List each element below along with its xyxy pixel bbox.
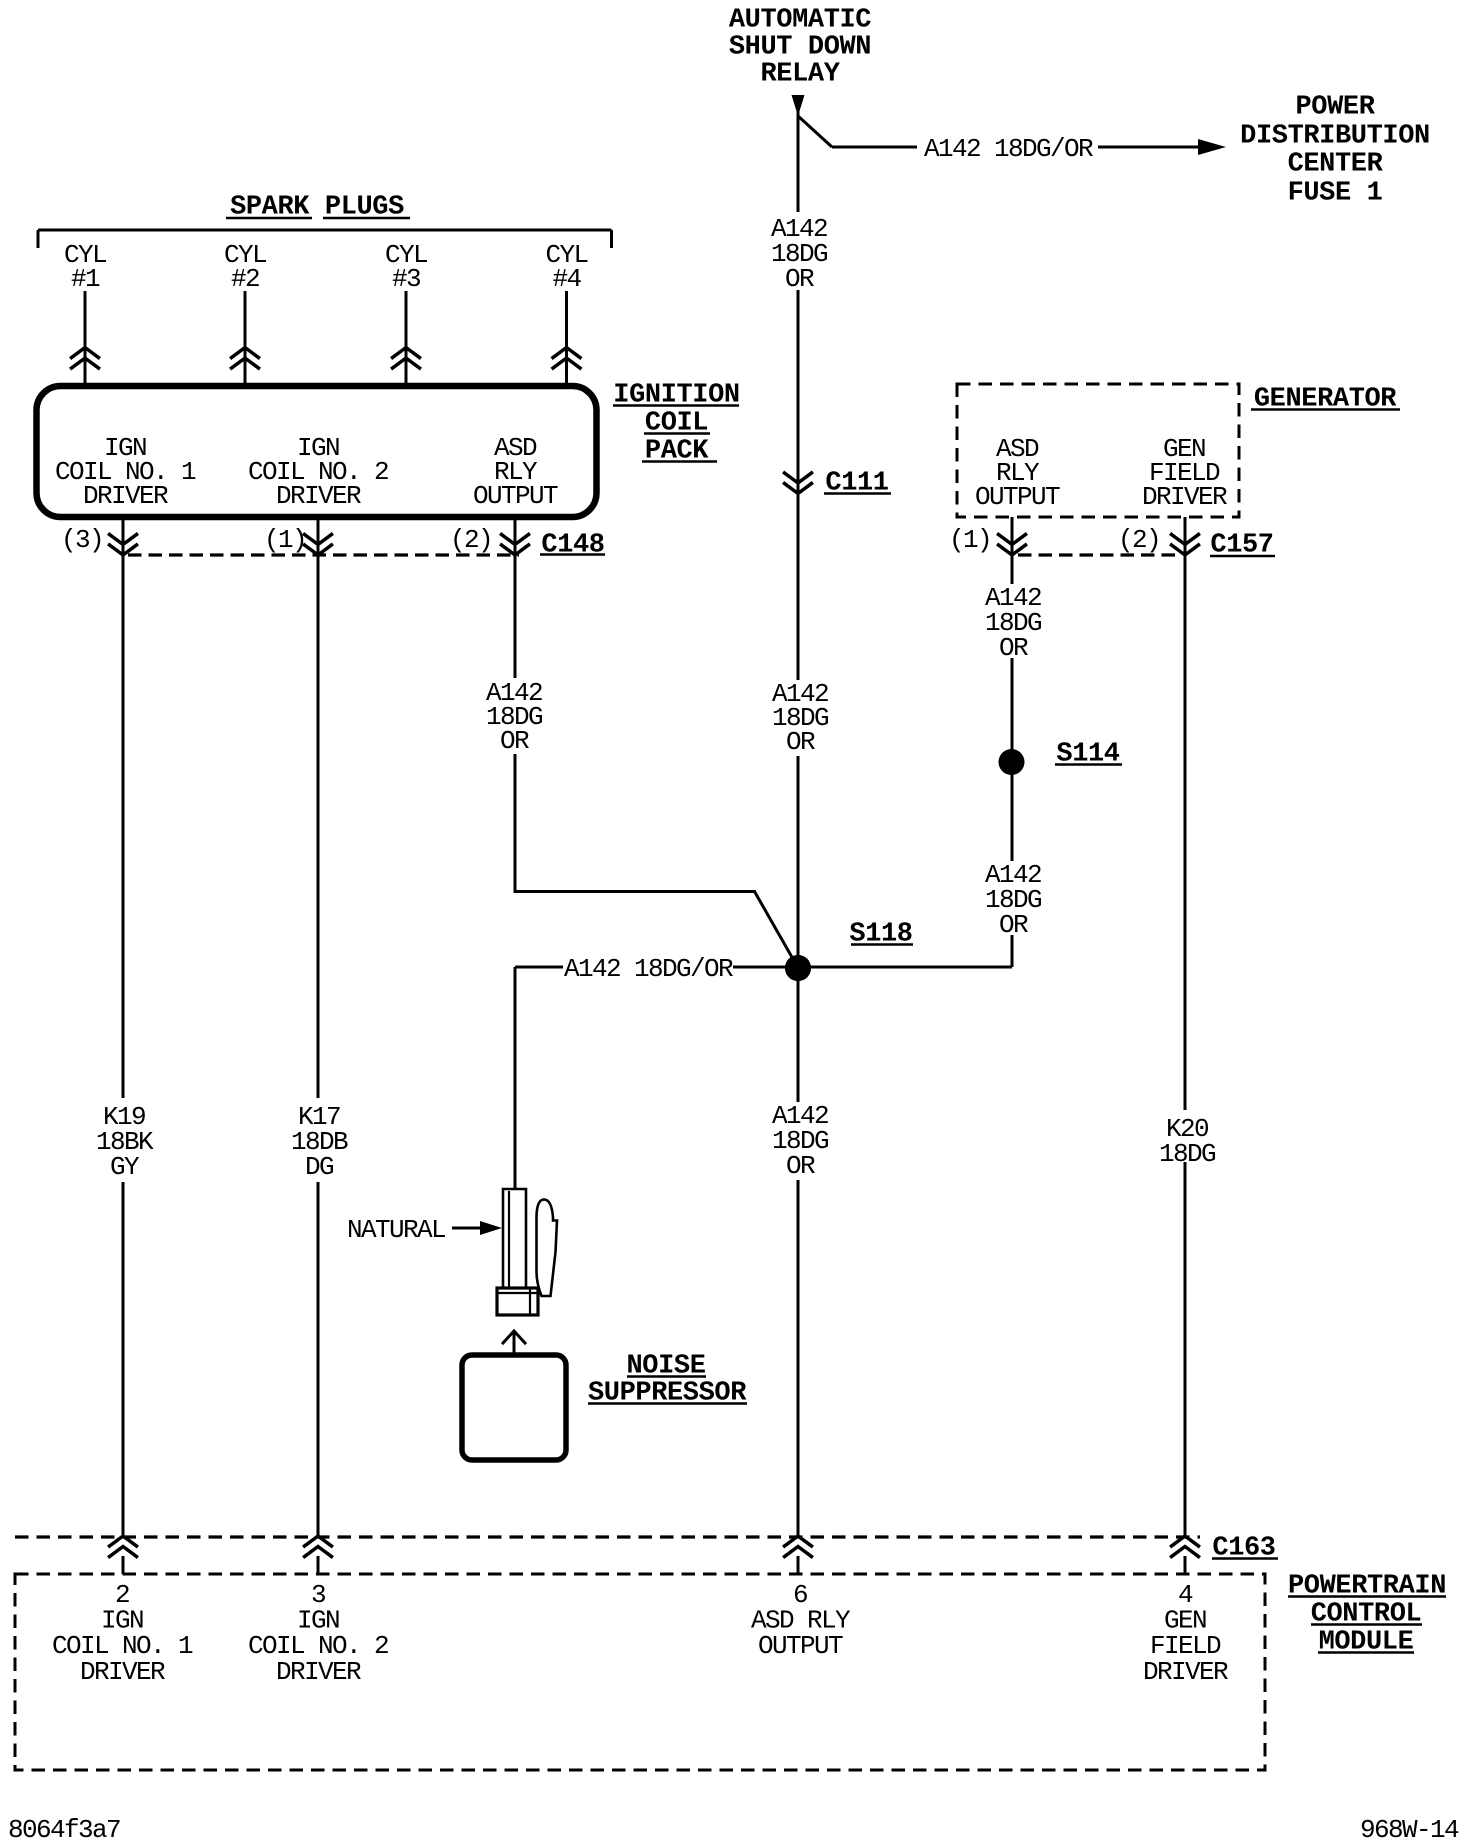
svg-text:(2): (2) (1118, 525, 1160, 555)
svg-text:POWER: POWER (1295, 93, 1375, 123)
svg-text:8064f3a7: 8064f3a7 (8, 1815, 120, 1840)
svg-text:OR: OR (999, 910, 1028, 940)
svg-text:OUTPUT: OUTPUT (473, 481, 558, 511)
svg-text:OR: OR (786, 727, 815, 757)
svg-text:DRIVER: DRIVER (1142, 482, 1227, 512)
svg-text:DRIVER: DRIVER (80, 1657, 165, 1687)
svg-text:(1): (1) (264, 525, 306, 555)
svg-text:DRIVER: DRIVER (276, 1657, 361, 1687)
svg-text:18DG: 18DG (1159, 1139, 1215, 1169)
svg-text:C148: C148 (541, 531, 604, 561)
svg-text:OR: OR (500, 726, 529, 756)
svg-text:CENTER: CENTER (1288, 150, 1384, 180)
svg-text:#1: #1 (71, 264, 100, 294)
svg-text:RELAY: RELAY (760, 60, 840, 90)
svg-text:DISTRIBUTION: DISTRIBUTION (1240, 122, 1430, 152)
svg-text:#4: #4 (552, 264, 581, 294)
svg-text:OUTPUT: OUTPUT (758, 1631, 843, 1661)
svg-text:GY: GY (110, 1152, 140, 1182)
svg-text:SHUT DOWN: SHUT DOWN (729, 33, 871, 63)
svg-text:NATURAL: NATURAL (347, 1215, 445, 1245)
svg-text:DRIVER: DRIVER (276, 481, 361, 511)
svg-text:(2): (2) (450, 525, 492, 555)
svg-text:#2: #2 (231, 264, 259, 294)
svg-text:A142 18DG/OR: A142 18DG/OR (924, 134, 1093, 164)
svg-text:DG: DG (305, 1152, 333, 1182)
svg-text:(1): (1) (949, 525, 991, 555)
svg-text:AUTOMATIC: AUTOMATIC (729, 6, 871, 36)
svg-text:A142 18DG/OR: A142 18DG/OR (564, 954, 733, 984)
svg-text:968W-14: 968W-14 (1360, 1815, 1459, 1840)
svg-text:FUSE 1: FUSE 1 (1288, 179, 1383, 209)
svg-text:OR: OR (786, 1151, 815, 1181)
svg-text:DRIVER: DRIVER (83, 481, 168, 511)
svg-text:#3: #3 (392, 264, 420, 294)
svg-text:OR: OR (785, 264, 814, 294)
svg-text:(3): (3) (61, 525, 103, 555)
svg-text:OR: OR (999, 633, 1028, 663)
svg-text:OUTPUT: OUTPUT (975, 482, 1060, 512)
svg-text:DRIVER: DRIVER (1143, 1657, 1228, 1687)
